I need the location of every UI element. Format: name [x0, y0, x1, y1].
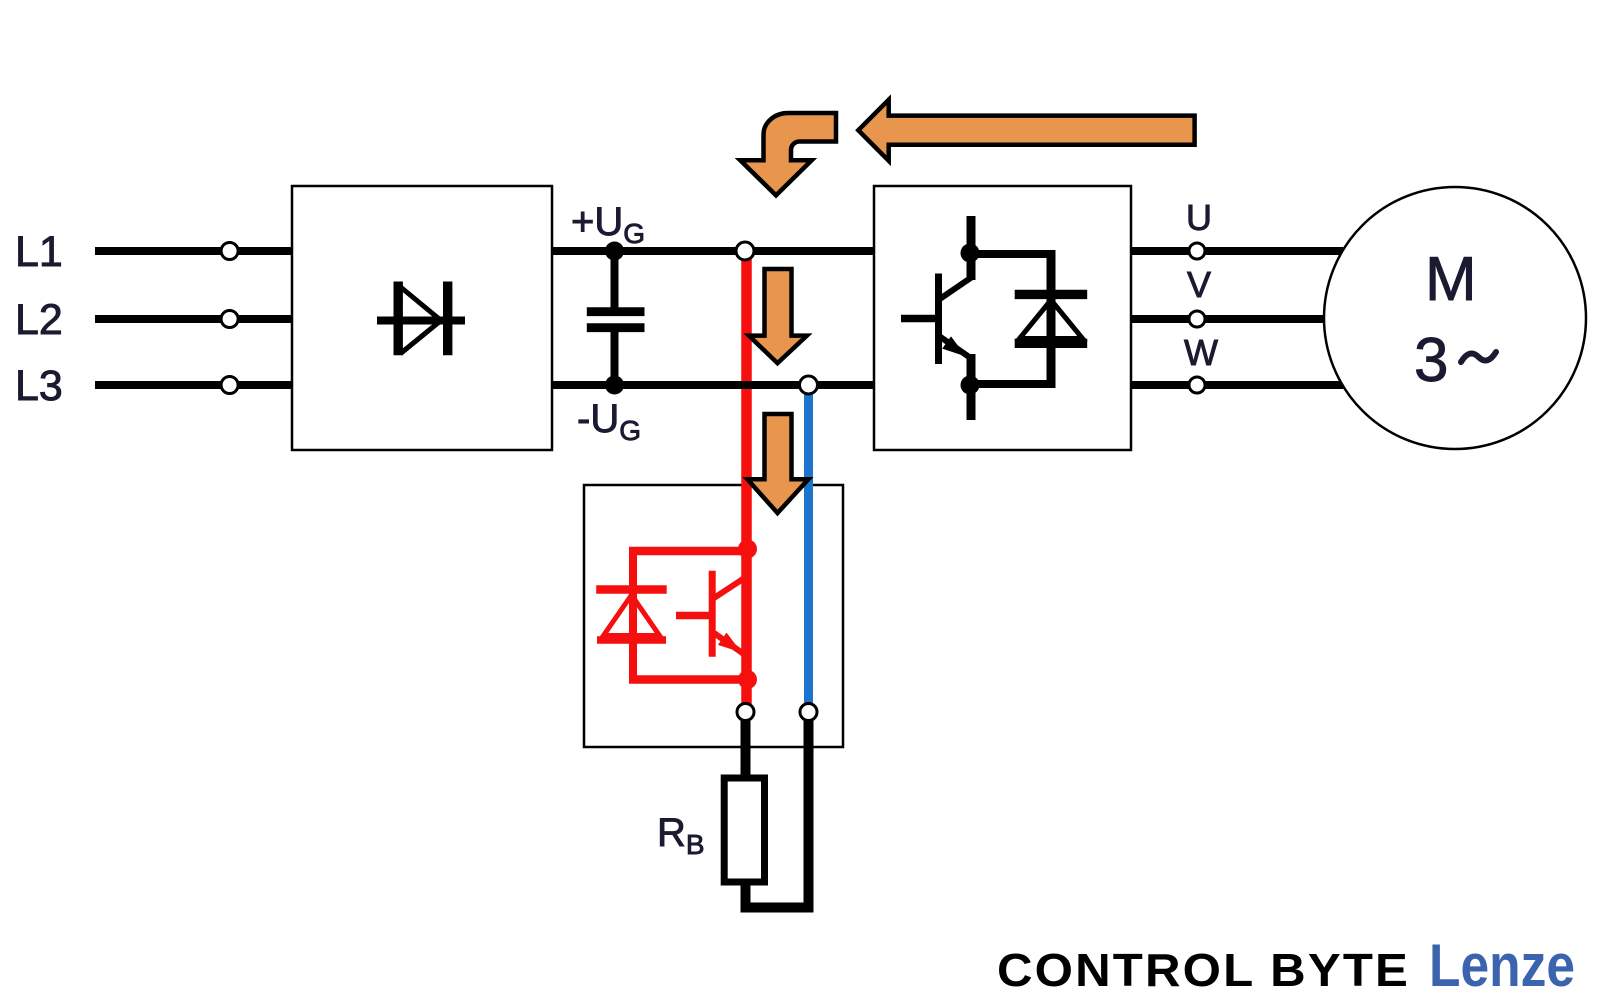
svg-text:CONTROL BYTE: CONTROL BYTE: [997, 944, 1410, 996]
svg-text:3: 3: [1414, 326, 1448, 395]
svg-text:L2: L2: [15, 296, 63, 344]
svg-text:Lenze: Lenze: [1429, 932, 1575, 999]
svg-text:W: W: [1184, 332, 1218, 373]
svg-text:M: M: [1425, 245, 1477, 314]
svg-text:U: U: [1186, 197, 1212, 238]
svg-text:L1: L1: [15, 228, 63, 276]
svg-text:L3: L3: [15, 362, 63, 410]
svg-text:V: V: [1187, 264, 1211, 305]
